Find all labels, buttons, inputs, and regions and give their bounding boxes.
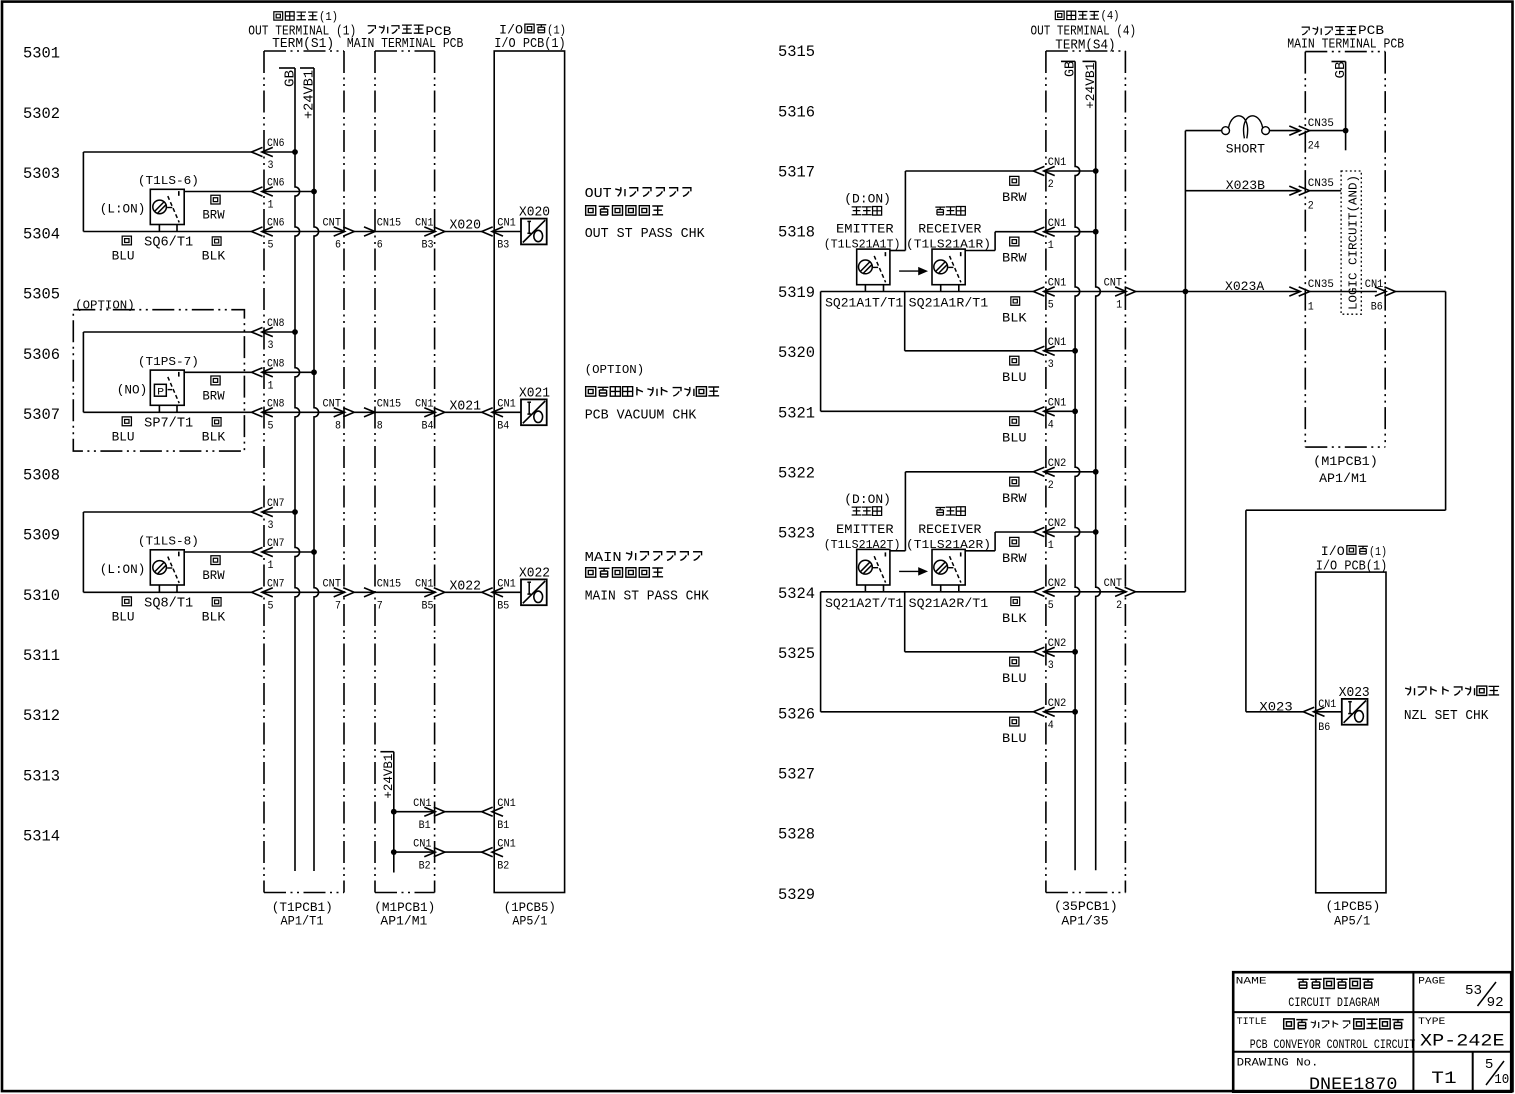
svg-text:CN8: CN8 xyxy=(267,399,285,411)
svg-text:(1PCB5): (1PCB5) xyxy=(1326,899,1381,914)
svg-text:5304: 5304 xyxy=(23,225,60,243)
junction node CN2-3 to GB xyxy=(1072,649,1078,655)
svg-text:CN6: CN6 xyxy=(267,218,285,230)
svg-text:5: 5 xyxy=(1485,1057,1494,1073)
wire switch to CN pin 1 xyxy=(184,551,315,553)
GB bus stub in right MAIN rail xyxy=(1332,62,1350,151)
svg-text:CN7: CN7 xyxy=(267,498,285,510)
photoelectric emitter SQ21A2T/T1 xyxy=(824,493,904,611)
light beam arrow xyxy=(899,268,926,274)
svg-text:BLU: BLU xyxy=(112,249,135,264)
svg-text:(T1LS-6): (T1LS-6) xyxy=(138,174,199,188)
photoelectric receiver SQ21A1R/T1 xyxy=(906,206,991,310)
svg-text:2: 2 xyxy=(1048,179,1054,191)
svg-text:B2: B2 xyxy=(497,861,509,873)
+24VB1 bus line in TERM(S1) xyxy=(300,68,319,871)
svg-text:BRW: BRW xyxy=(202,568,224,583)
svg-text:5316: 5316 xyxy=(778,103,815,121)
svg-text:CN1: CN1 xyxy=(415,218,434,230)
rail bottom label (T1PCB1) AP1/T1 xyxy=(272,900,333,929)
wire color labels xyxy=(112,376,226,444)
junction node CN2-2 to +24VB1 xyxy=(1093,469,1099,475)
wire emitter BLU down to pin 3 xyxy=(905,292,1075,351)
svg-text:X021: X021 xyxy=(450,399,482,414)
svg-text:3: 3 xyxy=(268,520,274,532)
svg-text:I/O PCB(1): I/O PCB(1) xyxy=(1316,559,1388,575)
svg-text:B1: B1 xyxy=(419,820,431,832)
connector CN15 pin 7 xyxy=(364,579,401,613)
svg-text:TERM(S1): TERM(S1) xyxy=(272,36,334,52)
annotation MAIN station check xyxy=(585,551,710,604)
connector CN1 pin B2 (I/O pcb side) xyxy=(482,839,516,873)
svg-text:CNT: CNT xyxy=(323,218,342,230)
svg-text:B5: B5 xyxy=(497,601,509,613)
I/O point X021 xyxy=(519,387,550,426)
junction node CN2-1 to +24VB1 xyxy=(1093,529,1099,535)
connector CN1 pin B3 (I/O pcb side) xyxy=(482,218,516,252)
connector CN1 pin B2 (main pcb side) xyxy=(413,839,445,873)
wire +24VB1 to CN1-B1 xyxy=(394,811,494,813)
svg-text:TITLE: TITLE xyxy=(1237,1016,1267,1028)
svg-text:EMITTER: EMITTER xyxy=(836,222,894,237)
wire loop left xyxy=(83,512,295,592)
svg-text:BRW: BRW xyxy=(1002,190,1027,205)
connector CN8 pin 5 xyxy=(252,399,285,433)
svg-text:(NO): (NO) xyxy=(117,383,148,397)
header label MAIN TERMINAL PCB right xyxy=(1287,24,1404,52)
svg-text:BRW: BRW xyxy=(1002,251,1027,266)
svg-text:OUT: OUT xyxy=(585,187,612,202)
connector CN2 pin 5 xyxy=(1033,578,1066,612)
svg-text:92: 92 xyxy=(1487,995,1504,1011)
svg-text:EMITTER: EMITTER xyxy=(836,522,894,537)
wire color labels xyxy=(112,556,226,625)
connector CN2 pin 3 xyxy=(1033,638,1066,672)
svg-text:CN1: CN1 xyxy=(1318,699,1336,711)
connector CN1 pin 4 xyxy=(1033,398,1066,432)
I/O point X022 xyxy=(519,567,550,606)
board rail I/O PCB(1) right (1PCB5) AP5/1 xyxy=(1316,572,1386,893)
vertical bus wire (logic collector) xyxy=(1184,131,1186,592)
svg-text:(35PCB1): (35PCB1) xyxy=(1054,899,1118,914)
svg-text:CN35: CN35 xyxy=(1308,178,1334,190)
svg-text:PAGE: PAGE xyxy=(1418,976,1445,988)
svg-text:CN8: CN8 xyxy=(267,318,285,330)
svg-text:SQ21A2T/T1: SQ21A2T/T1 xyxy=(825,596,903,611)
photoelectric receiver SQ21A2R/T1 xyxy=(906,507,991,611)
svg-text:5302: 5302 xyxy=(23,105,60,123)
signal wire bottom row xyxy=(83,231,521,233)
svg-text:5313: 5313 xyxy=(23,767,60,785)
svg-text:CN1: CN1 xyxy=(497,399,516,411)
svg-text:BRW: BRW xyxy=(1002,551,1027,566)
svg-text:PCB VACUUM CHK: PCB VACUUM CHK xyxy=(585,408,697,423)
svg-text:5327: 5327 xyxy=(778,766,815,784)
svg-text:X020: X020 xyxy=(519,206,550,221)
junction node CN7-1 to +24VB1 xyxy=(311,549,317,555)
svg-text:B3: B3 xyxy=(422,240,434,252)
connector CN6 pin 1 xyxy=(252,178,285,212)
svg-text:5306: 5306 xyxy=(23,346,60,364)
option enclosure box xyxy=(73,310,244,451)
svg-text:B6: B6 xyxy=(1318,722,1330,734)
svg-text:CN35: CN35 xyxy=(1308,118,1334,130)
svg-text:5: 5 xyxy=(268,421,274,433)
switch T1PS-7 SP7/T1 xyxy=(117,355,199,432)
svg-text:RECEIVER: RECEIVER xyxy=(918,522,981,537)
svg-text:CN1: CN1 xyxy=(497,579,516,591)
svg-text:24: 24 xyxy=(1308,141,1320,153)
junction node CN6-1 to +24VB1 xyxy=(311,189,317,195)
I/O point X023 xyxy=(1339,686,1370,725)
+24VB1 bus line in TERM(S4) xyxy=(1083,61,1101,870)
svg-text:5309: 5309 xyxy=(23,527,60,545)
light beam arrow xyxy=(899,568,926,574)
connector CN7 pin 3 xyxy=(252,498,285,532)
svg-text:CN15: CN15 xyxy=(377,399,402,411)
connector CNT pin 2 xyxy=(1104,578,1136,612)
wire net X023A xyxy=(1135,279,1300,294)
svg-text:(4): (4) xyxy=(1101,9,1120,23)
svg-text:5324: 5324 xyxy=(778,585,815,603)
svg-text:P: P xyxy=(157,386,164,398)
svg-text:2: 2 xyxy=(1116,600,1122,612)
wire CNT-2 to logic collector xyxy=(1136,591,1186,593)
board rail I/O PCB(1) (1PCB5) AP5/1 xyxy=(494,51,564,893)
svg-text:1: 1 xyxy=(1116,300,1122,312)
svg-text:8: 8 xyxy=(377,421,383,433)
junction node CN2-4 to GB xyxy=(1072,709,1078,715)
signal wire bottom row xyxy=(83,411,521,413)
svg-text:6: 6 xyxy=(377,240,383,252)
svg-text:CN15: CN15 xyxy=(377,579,402,591)
svg-text:AP1/T1: AP1/T1 xyxy=(281,914,324,929)
svg-text:TERM(S4): TERM(S4) xyxy=(1055,38,1115,54)
connector CN1 pin B4 (I/O pcb side) xyxy=(482,399,516,433)
signal wire bottom row xyxy=(83,591,521,593)
svg-text:(T1LS21A2T): (T1LS21A2T) xyxy=(824,538,901,552)
wire receiver BLU down to pin 4 xyxy=(821,592,1076,712)
connector CN15 pin 6 xyxy=(364,218,401,252)
svg-text:5323: 5323 xyxy=(778,525,815,543)
wire emitter BLU down to pin 3 xyxy=(905,592,1075,652)
svg-text:7: 7 xyxy=(335,601,341,613)
svg-text:5322: 5322 xyxy=(778,465,815,483)
wire color labels sensor block xyxy=(1002,176,1027,445)
svg-text:GB: GB xyxy=(1333,62,1349,79)
header label OUT TERMINAL (4) TERM(S4) xyxy=(1031,9,1137,53)
connector CN15 pin 8 xyxy=(364,399,401,433)
svg-text:2: 2 xyxy=(1048,480,1054,492)
svg-text:3: 3 xyxy=(1048,660,1054,672)
svg-text:SQ6/T1: SQ6/T1 xyxy=(144,236,193,251)
svg-text:GB: GB xyxy=(1063,61,1079,77)
svg-text:3: 3 xyxy=(268,160,274,172)
wire receiver BLU down to pin 4 xyxy=(821,292,1076,412)
svg-text:CNT: CNT xyxy=(323,399,342,411)
svg-text:B6: B6 xyxy=(1371,302,1383,314)
connector CNT pin 8 xyxy=(323,399,355,433)
switch T1LS-6 SQ6/T1 xyxy=(100,174,199,251)
svg-text:5315: 5315 xyxy=(778,43,815,61)
svg-text:X023B: X023B xyxy=(1226,178,1265,193)
svg-text:MAIN TERMINAL PCB: MAIN TERMINAL PCB xyxy=(1287,36,1404,52)
GB bus line in TERM(S1) xyxy=(279,68,300,871)
svg-text:+24VB1: +24VB1 xyxy=(382,754,396,799)
svg-text:PCB CONVEYOR CONTROL CIRCUIT: PCB CONVEYOR CONTROL CIRCUIT xyxy=(1250,1038,1416,1052)
wire net X023B xyxy=(1185,178,1300,193)
rail bottom label (1PCB5) AP5/1 xyxy=(504,900,556,929)
svg-text:B4: B4 xyxy=(497,421,509,433)
svg-text:RECEIVER: RECEIVER xyxy=(918,222,981,237)
junction node +24VB1/B2 xyxy=(391,849,397,855)
svg-text:6: 6 xyxy=(335,240,341,252)
svg-text:CN7: CN7 xyxy=(267,538,285,550)
svg-text:CN1: CN1 xyxy=(1365,279,1384,291)
svg-text:CNT: CNT xyxy=(1104,278,1123,290)
wire loop left xyxy=(83,152,295,232)
svg-text:BLU: BLU xyxy=(1002,731,1027,746)
svg-text:4: 4 xyxy=(1048,720,1054,732)
junction node X023A / logic xyxy=(1183,289,1189,295)
svg-text:CN1: CN1 xyxy=(497,798,516,810)
svg-text:XP-242E: XP-242E xyxy=(1420,1032,1505,1052)
svg-text:MAIN ST PASS CHK: MAIN ST PASS CHK xyxy=(585,589,710,604)
svg-text:2: 2 xyxy=(1308,201,1314,213)
wire loop left xyxy=(83,332,295,412)
svg-text:B1: B1 xyxy=(497,820,509,832)
wire emitter BRW to pin 2 xyxy=(890,472,1096,551)
net line numbers 5301-5314 xyxy=(23,45,60,846)
svg-text:BRW: BRW xyxy=(202,208,224,223)
svg-text:X023A: X023A xyxy=(1225,279,1264,294)
svg-text:DRAWING No.: DRAWING No. xyxy=(1237,1057,1319,1069)
junction node CN7-3 to GB xyxy=(292,509,298,515)
wire emitter BRW to pin 2 xyxy=(890,171,1096,251)
svg-text:SP7/T1: SP7/T1 xyxy=(144,416,193,431)
photoelectric emitter SQ21A1T/T1 xyxy=(824,193,904,311)
svg-text:CN1: CN1 xyxy=(1048,278,1067,290)
svg-text:B4: B4 xyxy=(422,421,434,433)
svg-text:CN1: CN1 xyxy=(1048,398,1067,410)
svg-text:5: 5 xyxy=(268,601,274,613)
net line numbers 5315-5329 xyxy=(778,43,815,904)
connector CN1 pin B4 (main pcb side) xyxy=(415,399,445,433)
svg-text:53: 53 xyxy=(1465,983,1482,999)
connector CN1 pin B1 (I/O pcb side) xyxy=(482,798,516,832)
svg-text:(T1LS21A2R): (T1LS21A2R) xyxy=(906,538,991,552)
svg-text:BLU: BLU xyxy=(1002,370,1027,385)
wire receiver BRW to pin 1 xyxy=(965,532,1095,551)
svg-text:7: 7 xyxy=(377,601,383,613)
svg-text:5319: 5319 xyxy=(778,284,815,302)
svg-text:(1): (1) xyxy=(1369,545,1387,559)
terminal rail MAIN TERMINAL PCB right (M1PCB1) AP1/M1 xyxy=(1305,52,1385,448)
svg-text:5308: 5308 xyxy=(23,466,60,484)
connector CN6 pin 5 xyxy=(252,218,285,252)
connector CNT pin 1 xyxy=(1104,278,1136,312)
svg-text:OUT ST PASS CHK: OUT ST PASS CHK xyxy=(585,227,706,242)
svg-text:1: 1 xyxy=(1048,540,1054,552)
svg-text:BRW: BRW xyxy=(1002,491,1027,506)
connector CN8 pin 1 xyxy=(252,359,285,393)
svg-text:5328: 5328 xyxy=(778,826,815,844)
svg-text:GB: GB xyxy=(283,70,299,87)
svg-text:MAIN: MAIN xyxy=(585,551,622,566)
terminal rail TERM(S4) (35PCB1) AP1/35 xyxy=(1046,51,1126,893)
svg-text:CN1: CN1 xyxy=(413,798,432,810)
svg-text:AP1/M1: AP1/M1 xyxy=(380,914,427,929)
junction node CN35-24 to GB xyxy=(1343,128,1349,134)
svg-text:NZL SET CHK: NZL SET CHK xyxy=(1404,709,1489,724)
svg-text:CN1: CN1 xyxy=(1048,337,1067,349)
svg-text:I/O: I/O xyxy=(1321,545,1345,559)
svg-text:BLK: BLK xyxy=(202,609,226,624)
svg-text:B3: B3 xyxy=(497,240,509,252)
svg-text:5326: 5326 xyxy=(778,705,815,723)
svg-text:1: 1 xyxy=(268,200,274,212)
svg-text:X023: X023 xyxy=(1339,686,1370,701)
svg-text:CNT: CNT xyxy=(1104,578,1123,590)
wire +24VB1 to CN1-B2 xyxy=(394,851,494,853)
svg-text:CN2: CN2 xyxy=(1048,518,1067,530)
junction node CN1-1 to +24VB1 xyxy=(1093,229,1099,235)
svg-text:5318: 5318 xyxy=(778,224,815,242)
svg-text:B2: B2 xyxy=(419,861,431,873)
connector CN2 pin 4 xyxy=(1033,698,1066,732)
svg-text:DNEE1870: DNEE1870 xyxy=(1309,1075,1397,1094)
svg-text:5303: 5303 xyxy=(23,165,60,183)
svg-text:BLU: BLU xyxy=(112,429,135,444)
svg-text:CN2: CN2 xyxy=(1048,458,1067,470)
header label OUT TERMINAL (1) TERM(S1) xyxy=(248,10,356,52)
annotation PCB vacuum check (option) xyxy=(585,363,719,424)
junction node CN1-2 to +24VB1 xyxy=(1093,168,1099,174)
svg-text:AP5/1: AP5/1 xyxy=(512,914,547,929)
svg-text:BLK: BLK xyxy=(202,249,226,264)
svg-text:X021: X021 xyxy=(519,387,550,402)
connector CN35 pin 1 xyxy=(1289,279,1377,314)
wire switch to CN pin 1 xyxy=(184,191,315,193)
svg-text:5310: 5310 xyxy=(23,587,60,605)
connector CN7 pin 5 xyxy=(252,579,285,613)
SHORT jumper xyxy=(1185,116,1300,156)
rail bottom label (35PCB1) AP1/35 xyxy=(1054,899,1118,929)
svg-text:CN8: CN8 xyxy=(267,359,285,371)
wire receiver BRW to pin 1 xyxy=(965,232,1095,251)
signal wire BLK row to pin 5 xyxy=(821,591,1125,593)
svg-text:1: 1 xyxy=(268,381,274,393)
svg-text:5: 5 xyxy=(1048,600,1054,612)
wire X023 feedback route xyxy=(1246,292,1446,712)
svg-text:CN1: CN1 xyxy=(497,218,516,230)
connector CNT pin 6 xyxy=(323,218,355,252)
svg-text:10: 10 xyxy=(1494,1072,1509,1088)
annotation OUT station check xyxy=(585,187,706,242)
svg-text:AP5/1: AP5/1 xyxy=(1334,914,1370,929)
svg-text:BLK: BLK xyxy=(1002,611,1027,626)
junction node CN1-4 to GB xyxy=(1072,408,1078,414)
svg-text:SQ21A1R/T1: SQ21A1R/T1 xyxy=(909,296,989,311)
svg-text:X023: X023 xyxy=(1259,699,1292,714)
svg-text:CN1: CN1 xyxy=(415,399,434,411)
junction node CN1-3 to GB xyxy=(1072,348,1078,354)
svg-text:5311: 5311 xyxy=(23,647,60,665)
svg-text:AP1/35: AP1/35 xyxy=(1061,914,1108,929)
svg-text:LOGIC CIRCUIT(AND): LOGIC CIRCUIT(AND) xyxy=(1347,175,1361,310)
svg-text:3: 3 xyxy=(268,340,274,352)
svg-text:5: 5 xyxy=(268,240,274,252)
svg-text:CN1: CN1 xyxy=(415,579,434,591)
connector CN2 pin 1 xyxy=(1033,518,1066,552)
connector CNT pin 7 xyxy=(323,579,355,613)
svg-text:(T1LS21A1R): (T1LS21A1R) xyxy=(906,238,991,252)
svg-text:BLU: BLU xyxy=(1002,430,1027,445)
svg-text:5325: 5325 xyxy=(778,645,815,663)
connector CN1 pin B1 (main pcb side) xyxy=(413,798,445,832)
annotation nozzle set check xyxy=(1404,686,1499,724)
connector CN1 pin B6 xyxy=(1365,279,1446,314)
rail bottom label (M1PCB1) AP1/M1 xyxy=(374,900,435,929)
svg-text:SHORT: SHORT xyxy=(1226,141,1265,156)
svg-text:1: 1 xyxy=(268,560,274,572)
svg-text:BLU: BLU xyxy=(112,609,135,624)
svg-text:CN2: CN2 xyxy=(1048,698,1067,710)
svg-text:(OPTION): (OPTION) xyxy=(585,363,645,377)
rail bottom label (M1PCB1) AP1/M1 right xyxy=(1313,454,1378,486)
svg-text:(D:ON): (D:ON) xyxy=(844,493,891,507)
connector CN7 pin 1 xyxy=(252,538,285,572)
connector CN1 pin 2 xyxy=(1033,157,1066,191)
connector CN35 pin 2 xyxy=(1289,178,1341,213)
svg-text:1: 1 xyxy=(1048,240,1054,252)
svg-text:5305: 5305 xyxy=(23,286,60,304)
connector CN1 pin 3 xyxy=(1033,337,1066,371)
svg-text:BLK: BLK xyxy=(1002,311,1027,326)
I/O point X020 xyxy=(519,206,550,245)
svg-text:CN1: CN1 xyxy=(1048,157,1067,169)
svg-text:(T1LS21A1T): (T1LS21A1T) xyxy=(824,238,901,252)
connector CN1 pin B6 (I/O pcb side) xyxy=(1303,699,1342,734)
connector CN1 pin B3 (main pcb side) xyxy=(415,218,445,252)
header label I/O PCB(1) right xyxy=(1316,545,1388,575)
svg-text:(L:ON): (L:ON) xyxy=(100,563,146,577)
svg-text:3: 3 xyxy=(1048,359,1054,371)
junction node +24VB1/B1 xyxy=(391,809,397,815)
connector CN1 pin B5 (main pcb side) xyxy=(415,579,445,613)
svg-text:CN7: CN7 xyxy=(267,579,285,591)
svg-text:CN35: CN35 xyxy=(1308,279,1334,291)
header label I/O PCB(1) xyxy=(494,24,566,53)
svg-text:5317: 5317 xyxy=(778,164,815,182)
svg-text:CN15: CN15 xyxy=(377,218,402,230)
svg-text:5: 5 xyxy=(1048,300,1054,312)
svg-text:CN6: CN6 xyxy=(267,138,285,150)
svg-text:5321: 5321 xyxy=(778,404,815,422)
connector CN35 pin 24 xyxy=(1289,118,1345,153)
header label MAIN TERMINAL PCB xyxy=(347,25,464,52)
svg-text:SQ8/T1: SQ8/T1 xyxy=(144,596,193,611)
junction node CN6-3 to GB xyxy=(292,149,298,155)
connector CN8 pin 3 xyxy=(252,318,285,352)
svg-text:(T1PS-7): (T1PS-7) xyxy=(138,355,199,369)
svg-text:CN2: CN2 xyxy=(1048,578,1067,590)
GB bus line in TERM(S4) xyxy=(1061,61,1080,870)
svg-text:+24VB1: +24VB1 xyxy=(303,70,318,119)
wire color labels sensor block xyxy=(1002,477,1027,746)
svg-text:NAME: NAME xyxy=(1236,976,1267,988)
svg-text:5320: 5320 xyxy=(778,344,815,362)
